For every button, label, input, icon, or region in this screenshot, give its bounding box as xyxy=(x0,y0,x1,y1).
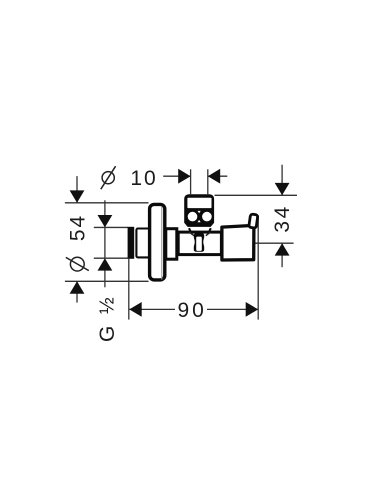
dimension Ø54 leader line bottom xyxy=(76,281,78,302)
label Ø (diameter symbol) of Ø10 xyxy=(101,166,116,189)
dimension 34 arrow top xyxy=(275,183,290,195)
rosette highlight line xyxy=(161,207,163,280)
dimension Ø10 leader line left xyxy=(163,175,190,177)
dimension Ø54 extension line top xyxy=(65,202,149,204)
inlet pipe thread outline top xyxy=(94,226,128,228)
dimension G1/2 leader line vertical xyxy=(104,200,106,287)
dimension 34 arrow bottom xyxy=(275,243,290,255)
head split notch bottom xyxy=(198,220,201,222)
svg-text:G: G xyxy=(96,326,119,342)
dimension Ø10 leader line right xyxy=(208,175,228,177)
head circle left xyxy=(188,212,198,222)
valve head silhouette xyxy=(184,194,214,227)
head window xyxy=(187,198,211,208)
label Ø (diameter symbol) of Ø54 rotated xyxy=(66,257,89,271)
dimension Ø54 leader line top xyxy=(76,176,78,203)
stem keyhole on body xyxy=(194,233,204,252)
rosette disc xyxy=(150,204,165,280)
inlet pipe thread outline bottom xyxy=(94,257,128,259)
dimension Ø10 arrow left xyxy=(178,169,190,184)
dimension Ø10 extension line right xyxy=(207,169,209,194)
dimension Ø10 extension line left xyxy=(190,169,192,194)
dimension G1/2 arrow top xyxy=(98,215,113,227)
dimension 34 leader line bottom xyxy=(281,243,283,267)
dimension Ø54 arrow top xyxy=(70,190,85,202)
dimension 34 extension line top xyxy=(215,194,298,196)
dimension 90 extension line left xyxy=(128,259,130,320)
dimension 34 leader line top xyxy=(281,165,283,196)
dimension 90 arrow right xyxy=(246,302,258,317)
neck below head xyxy=(189,228,211,232)
svg-text:54: 54 xyxy=(67,214,90,241)
dimension Ø54 arrow bottom xyxy=(70,281,85,293)
outlet block xyxy=(222,225,254,260)
right collar xyxy=(166,229,177,260)
dimension 34 extension line bottom xyxy=(255,242,294,244)
thread relief band xyxy=(128,227,135,259)
lever tab xyxy=(249,214,258,228)
head circle right xyxy=(202,212,212,222)
chamfer tick left xyxy=(189,232,194,236)
svg-text:½: ½ xyxy=(96,297,118,314)
dimension 90 arrow left xyxy=(129,302,141,317)
dimension Ø54 extension line bottom xyxy=(65,280,149,282)
dimension 90 leader line xyxy=(129,308,175,310)
dimension Ø10 arrow right xyxy=(208,169,220,184)
svg-text:90: 90 xyxy=(177,299,206,322)
dimension G1/2 arrow bottom xyxy=(98,258,113,270)
body barrel xyxy=(178,232,221,255)
svg-text:10: 10 xyxy=(130,167,157,190)
dimension 90 extension line right xyxy=(257,216,259,320)
svg-text:34: 34 xyxy=(271,204,294,233)
chamfer tick right xyxy=(206,232,211,236)
left collar xyxy=(136,229,150,258)
stem keyhole white slot xyxy=(196,237,202,251)
head split notch top xyxy=(198,211,201,213)
